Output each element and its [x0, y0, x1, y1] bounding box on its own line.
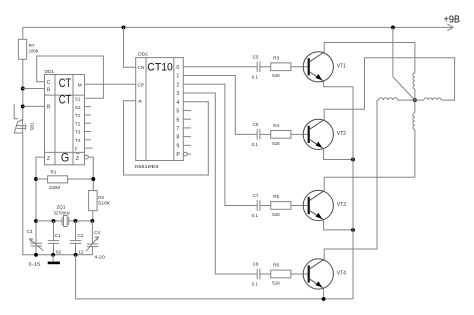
wire VT3 collector to coil L3 — [324, 177, 415, 190]
svg-text:51K: 51K — [272, 280, 281, 285]
wire rail to R7 — [22, 27, 24, 39]
capacitor C4 variable — [86, 221, 105, 260]
svg-text:Z: Z — [76, 156, 79, 162]
crystal ZQ1 — [54, 205, 71, 227]
resistor R2 — [89, 191, 112, 211]
svg-text:R4: R4 — [273, 123, 279, 128]
inductor L2 (right winding) — [415, 98, 441, 100]
svg-text:ZQ1: ZQ1 — [57, 205, 66, 210]
wire VT2 collector to coil L2 — [324, 58, 454, 120]
resistor R7 — [18, 39, 39, 59]
svg-text:К561ИЕ8: К561ИЕ8 — [135, 164, 159, 170]
svg-text:C5: C5 — [253, 54, 259, 59]
svg-text:100K: 100K — [29, 48, 40, 53]
svg-text:DD1: DD1 — [45, 69, 55, 75]
wire R1 right — [68, 178, 94, 180]
resistor R4 — [271, 123, 291, 146]
transistor VT3 — [303, 190, 346, 220]
svg-text:R5: R5 — [273, 194, 279, 199]
svg-text:1: 1 — [176, 74, 179, 80]
svg-text:8: 8 — [176, 135, 179, 141]
wire VT1 emitter to bus — [324, 81, 353, 87]
wire R6 to VT4 base — [291, 273, 308, 275]
node VT4-emitter-rail — [322, 297, 326, 301]
svg-text:F: F — [75, 146, 78, 151]
svg-text:R6: R6 — [273, 263, 279, 268]
transistor VT4 — [303, 259, 346, 289]
svg-text:DD2: DD2 — [138, 51, 148, 57]
node VT3-emitter-bus — [351, 228, 355, 232]
capacitor C3 variable — [27, 229, 44, 266]
wire R4 to VT2 base — [291, 133, 308, 135]
wire VT4 collector to coil L4 — [324, 100, 377, 259]
wire VT2 emitter to bus — [324, 149, 353, 160]
wire DD2 out2 to C7 — [183, 84, 257, 205]
svg-text:0.1: 0.1 — [252, 142, 259, 147]
svg-text:0.1: 0.1 — [252, 213, 259, 218]
svg-text:P: P — [176, 152, 180, 158]
wire R7 down — [22, 59, 24, 120]
node R-input-1 — [21, 87, 25, 91]
label K561IE8 — [135, 164, 159, 170]
svg-text:0.1: 0.1 — [252, 74, 259, 79]
capacitor C6 — [252, 122, 260, 147]
svg-text:VT2: VT2 — [337, 131, 346, 137]
wire Z pin to node A — [36, 157, 45, 243]
wire S1 feedback loop to C input — [37, 56, 104, 98]
ground — [48, 255, 60, 264]
node R-input-2 — [21, 104, 25, 108]
svg-text:VT4: VT4 — [337, 271, 346, 277]
node bottom-C3 — [34, 253, 38, 257]
inductor L3 (bottom winding) — [413, 100, 415, 177]
svg-text:4: 4 — [176, 100, 179, 106]
capacitor C1 — [48, 221, 62, 255]
wire C2 node down — [75, 255, 77, 299]
svg-text:R: R — [47, 105, 51, 111]
label +9V — [444, 14, 461, 26]
svg-text:12: 12 — [78, 250, 84, 255]
svg-text:Z: Z — [47, 156, 50, 162]
svg-text:C3: C3 — [27, 229, 33, 234]
wire R input bottom section — [23, 105, 45, 107]
wire C6 to R4 — [260, 133, 271, 135]
svg-text:T2: T2 — [75, 121, 81, 126]
wire motor common diagonal — [393, 77, 415, 100]
svg-text:6: 6 — [176, 117, 179, 123]
svg-text:51K: 51K — [272, 141, 281, 146]
svg-text:7: 7 — [176, 126, 179, 132]
svg-text:T4: T4 — [75, 138, 81, 143]
svg-text:C8: C8 — [253, 262, 259, 267]
svg-text:C4: C4 — [94, 230, 100, 235]
svg-text:32768Hz: 32768Hz — [54, 210, 71, 215]
svg-text:9: 9 — [176, 143, 179, 149]
svg-text:3-15: 3-15 — [28, 261, 41, 266]
svg-text:51K: 51K — [272, 73, 281, 78]
resistor R5 — [271, 194, 291, 217]
wire R2 to bus — [92, 211, 94, 221]
transistor VT1 — [303, 52, 346, 82]
node motor star center — [413, 98, 417, 102]
arrow +9V — [447, 24, 453, 31]
inductor L4 (left winding) — [377, 98, 415, 100]
node bottom-C2 — [74, 253, 78, 257]
wire emitter bus — [352, 87, 354, 299]
node VT2-emitter-bus — [351, 158, 355, 162]
svg-text:C2: C2 — [77, 233, 83, 238]
svg-text:G: G — [61, 151, 69, 165]
node bus-C1 — [52, 219, 56, 223]
svg-text:R2: R2 — [98, 195, 104, 200]
capacitor C2 — [70, 221, 84, 255]
wire DD1 output stubs — [85, 107, 93, 149]
svg-text:T3: T3 — [75, 130, 81, 135]
svg-text:SB1: SB1 — [30, 122, 35, 131]
resistor R3 — [271, 55, 291, 78]
svg-text:CN: CN — [137, 65, 144, 71]
wire R input top section — [23, 88, 45, 90]
node bus-C2 — [74, 219, 78, 223]
svg-text:22M: 22M — [49, 185, 60, 190]
ground P-bubble DD2 — [184, 152, 192, 156]
transistor VT2 — [303, 119, 346, 149]
wire Zbar to node B — [88, 157, 93, 190]
node rail-motor junction — [391, 25, 395, 29]
svg-text:0.1: 0.1 — [252, 282, 259, 287]
svg-text:CT: CT — [59, 78, 71, 90]
svg-text:51K: 51K — [272, 212, 281, 217]
wire DD2 out0 to C5 — [183, 66, 257, 68]
svg-text:R1: R1 — [51, 169, 57, 174]
op-amp DD1 (clock IC K176IE12) — [45, 69, 85, 165]
svg-text:4-20: 4-20 — [94, 255, 105, 260]
svg-text:CT: CT — [59, 95, 71, 107]
resistor R6 — [271, 263, 291, 286]
wire rail to motor common — [392, 27, 394, 77]
svg-text:T1: T1 — [75, 113, 81, 118]
sensor SB1 (piezo) — [14, 104, 34, 133]
svg-text:M: M — [78, 82, 82, 88]
svg-text:510K: 510K — [98, 201, 111, 206]
svg-text:C1: C1 — [55, 233, 61, 238]
node B-R1 — [91, 177, 95, 181]
wire C8 to R6 — [260, 273, 271, 275]
inductor L1 (top winding) — [413, 43, 415, 101]
wire CN to rail — [124, 27, 136, 67]
wire bottom return rail — [76, 298, 353, 300]
capacitor C7 — [252, 193, 260, 218]
node bus-C4 — [90, 219, 94, 223]
svg-text:62: 62 — [56, 250, 62, 255]
svg-text:VT1: VT1 — [337, 64, 346, 70]
svg-text:C7: C7 — [253, 193, 259, 198]
svg-text:+9В: +9В — [444, 14, 461, 26]
wire SB1 down-left rail — [23, 133, 93, 255]
wire +9V rail — [23, 26, 453, 28]
svg-text:C6: C6 — [253, 122, 259, 127]
wire VT1 collector to coil L1 — [324, 43, 415, 53]
wire crystal bus right — [69, 220, 93, 222]
node A-bus — [34, 219, 38, 223]
wire R1 left — [36, 178, 48, 180]
wire VT4 emitter to rail — [323, 288, 325, 299]
wire DD2 out1 to C6 — [183, 76, 257, 135]
svg-text:3: 3 — [176, 91, 179, 97]
svg-text:VT3: VT3 — [337, 202, 346, 208]
svg-text:R: R — [47, 87, 51, 93]
svg-text:R: R — [138, 99, 142, 105]
svg-text:R3: R3 — [273, 55, 279, 60]
wire crystal bus left — [36, 220, 62, 222]
svg-text:0: 0 — [176, 65, 179, 71]
wire C7 to R5 — [260, 205, 271, 207]
svg-text:CP: CP — [137, 83, 144, 89]
capacitor C8 — [252, 262, 260, 287]
ground Z-bubble DD1 — [85, 155, 89, 159]
wire DD2 out3 to C8 — [183, 93, 257, 274]
node bottom-C1-gnd — [51, 253, 55, 257]
svg-text:CT10: CT10 — [147, 61, 173, 73]
resistor R1 — [48, 169, 68, 189]
svg-text:S2: S2 — [75, 105, 81, 110]
svg-text:S1: S1 — [75, 97, 81, 102]
wire VT3 emitter to bus — [324, 220, 353, 230]
svg-text:C: C — [47, 80, 51, 86]
op-amp DD2 counter CT10 (K561IE8) — [136, 51, 184, 160]
node A-R1 — [34, 177, 38, 181]
node rail-CN junction — [122, 25, 126, 29]
wire M to CP — [85, 83, 136, 85]
svg-text:2: 2 — [176, 82, 179, 88]
wire DD2 stubs 5-9 — [183, 110, 191, 145]
capacitor C5 — [252, 54, 260, 79]
wire R5 to VT3 base — [291, 205, 308, 207]
wire R to output4 loop — [124, 101, 209, 175]
wire C5 to R3 — [260, 66, 271, 68]
svg-text:5: 5 — [176, 109, 179, 115]
wire R3 to VT1 base — [291, 66, 308, 68]
